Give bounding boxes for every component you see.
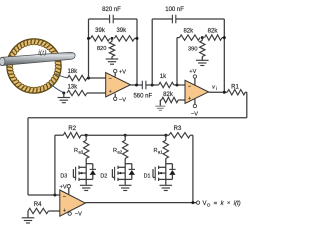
node U2 output junction <box>223 91 226 94</box>
wire ladder left drop <box>54 135 56 195</box>
svg-text:82k: 82k <box>183 28 194 34</box>
wire 18k to node <box>87 77 106 79</box>
svg-text:D2: D2 <box>100 174 107 180</box>
svg-text:1k: 1k <box>160 74 167 80</box>
svg-text:×: × <box>227 201 230 207</box>
resistor Ra2 <box>123 140 128 158</box>
svg-text:39k: 39k <box>95 28 106 34</box>
svg-text:100 nF: 100 nF <box>165 7 184 13</box>
wire into U3 inverting input <box>28 194 60 196</box>
svg-text:R: R <box>74 148 78 154</box>
ground (Q2) <box>119 184 132 186</box>
resistor R1 <box>227 90 245 95</box>
svg-text:82k: 82k <box>163 92 174 98</box>
svg-text:a1: a1 <box>158 150 163 155</box>
svg-text:+V: +V <box>60 184 67 190</box>
wire feedback top right <box>113 18 137 20</box>
svg-text:=: = <box>214 200 218 207</box>
svg-text:i(t): i(t) <box>38 49 47 56</box>
wire coil to 18k <box>56 74 68 79</box>
svg-text:R: R <box>153 148 157 154</box>
svg-text:−: − <box>188 84 191 90</box>
svg-text:a2: a2 <box>117 150 122 155</box>
node U3 inverting input junction <box>53 194 56 197</box>
ground (Q3) <box>80 184 93 186</box>
node net2 right rail junction <box>223 36 226 39</box>
wire net2 left rail <box>151 19 153 85</box>
wire net2 top left <box>152 18 172 20</box>
op-amp U2 <box>185 80 209 103</box>
U3 -V terminal <box>69 211 71 212</box>
wire net2 top right <box>176 18 225 20</box>
wire R2 to Ra3 node <box>81 134 86 136</box>
wire U1 output <box>131 84 143 86</box>
resistor 390 <box>201 38 203 41</box>
wire ladder segment 1 <box>86 134 125 136</box>
wire feedback left rail <box>88 19 90 78</box>
resistor 82k (left) <box>180 35 201 40</box>
node Ra2 tap <box>124 134 127 137</box>
svg-text:390: 390 <box>188 46 198 52</box>
op-amp U3 <box>60 190 86 216</box>
svg-text:13k: 13k <box>67 84 78 90</box>
wire ladder segment 2 <box>125 134 166 136</box>
svg-text:−: − <box>109 76 112 82</box>
op-amp U1 <box>106 73 131 98</box>
wire resistor row right <box>135 37 138 39</box>
wire resistor row left <box>89 37 91 39</box>
resistor 18k <box>68 75 88 80</box>
U1 +V terminal <box>114 73 116 77</box>
wire coil to 13k node <box>50 84 64 93</box>
wire Ra1 node to R3 <box>166 134 169 136</box>
svg-text:+: + <box>109 89 112 95</box>
svg-text:−: − <box>63 194 66 200</box>
output terminal <box>196 201 199 204</box>
node feedback1 output junction <box>135 84 138 87</box>
svg-text:18k: 18k <box>67 69 78 75</box>
svg-text:R2: R2 <box>68 126 76 132</box>
resistor 39k (left) <box>91 36 110 41</box>
svg-text:560 nF: 560 nF <box>133 94 152 100</box>
capacitor 560 nF <box>141 81 143 90</box>
wire U3 output <box>85 202 196 204</box>
svg-text:D1: D1 <box>144 174 151 180</box>
node integrator input junction <box>151 84 154 87</box>
svg-text:−V: −V <box>119 97 126 103</box>
svg-text:82k: 82k <box>208 28 219 34</box>
svg-text:R3: R3 <box>174 126 182 132</box>
wire left rail of bottom loop <box>27 118 29 195</box>
svg-text:820: 820 <box>97 46 107 52</box>
conductor rod carrying current i(t) <box>1 52 75 65</box>
wire U2 output <box>209 91 228 93</box>
node Ra3 tap <box>85 134 88 137</box>
wire R1 down right side <box>245 91 247 93</box>
transistor Q2 (switch D2) <box>124 159 126 185</box>
wire feedback top left <box>89 18 110 20</box>
wire 82k to ground <box>160 99 161 101</box>
wire R3 down to output <box>190 134 193 136</box>
svg-text:D3: D3 <box>60 174 67 180</box>
ground (13k) <box>63 93 65 98</box>
wire 1k to U2 <box>174 84 185 86</box>
ground (Q1) <box>160 184 173 186</box>
ground (82k) <box>155 105 165 107</box>
svg-text:−V: −V <box>191 111 198 117</box>
svg-text:R1: R1 <box>231 84 239 90</box>
wire top rail of bottom loop <box>28 117 247 119</box>
svg-text:820 nF: 820 nF <box>102 7 121 13</box>
node Ra1 tap <box>164 134 167 137</box>
resistor 82k (U2 +) <box>162 97 179 102</box>
node 39k/39k/820 junction <box>111 37 114 40</box>
svg-text:a3: a3 <box>78 150 83 155</box>
node 13k/ground junction <box>62 92 65 95</box>
resistor R2 <box>63 133 81 138</box>
resistor 820 <box>111 38 113 41</box>
resistor Ra3 <box>84 140 89 158</box>
resistor 13k <box>67 90 87 95</box>
wire net2 tap drop <box>176 38 178 85</box>
node right rail / 39k <box>136 37 139 40</box>
resistor R4 <box>28 208 48 213</box>
node 1k / 82k-T junction <box>176 84 179 87</box>
svg-text:+V: +V <box>189 69 196 75</box>
resistor 1k <box>159 82 174 87</box>
node left rail / 39k <box>87 37 90 40</box>
ground (820) <box>111 57 113 60</box>
transistor Q3 (switch D3) <box>85 159 87 185</box>
wire cap to 1k <box>146 84 159 86</box>
resistor 82k (right) <box>205 35 223 40</box>
svg-text:R: R <box>113 148 117 154</box>
node output junction <box>191 201 194 204</box>
Rogowski coil toroid winding <box>6 38 62 94</box>
svg-text:39k: 39k <box>116 28 127 34</box>
wire net2 right rail <box>223 19 225 92</box>
svg-text:R4: R4 <box>34 202 42 208</box>
svg-text:+V: +V <box>119 70 126 76</box>
ground (R4) <box>27 211 29 218</box>
svg-text:−V: −V <box>75 211 82 217</box>
U2 +V terminal <box>194 78 196 85</box>
ground (390) <box>201 57 203 61</box>
U3 +V terminal <box>68 188 70 195</box>
U2 -V terminal <box>194 99 196 105</box>
svg-text:i(t): i(t) <box>234 200 241 207</box>
resistor 39k (right) <box>114 36 134 41</box>
node 18k/feedback junction <box>87 77 90 80</box>
svg-text:O: O <box>207 202 211 207</box>
resistor R3 <box>169 133 190 138</box>
U1 -V terminal <box>114 94 116 98</box>
transistor Q1 (switch D1) <box>165 159 167 185</box>
resistor Ra1 <box>163 140 168 158</box>
svg-text:+: + <box>63 208 66 214</box>
capacitor 100 nF <box>171 15 173 24</box>
node 82k/82k/390 junction <box>201 36 204 39</box>
wire ladder left corner <box>55 134 63 136</box>
wire feedback right rail <box>136 19 138 85</box>
svg-text:+: + <box>188 96 191 102</box>
capacitor 820 nF <box>109 15 111 24</box>
